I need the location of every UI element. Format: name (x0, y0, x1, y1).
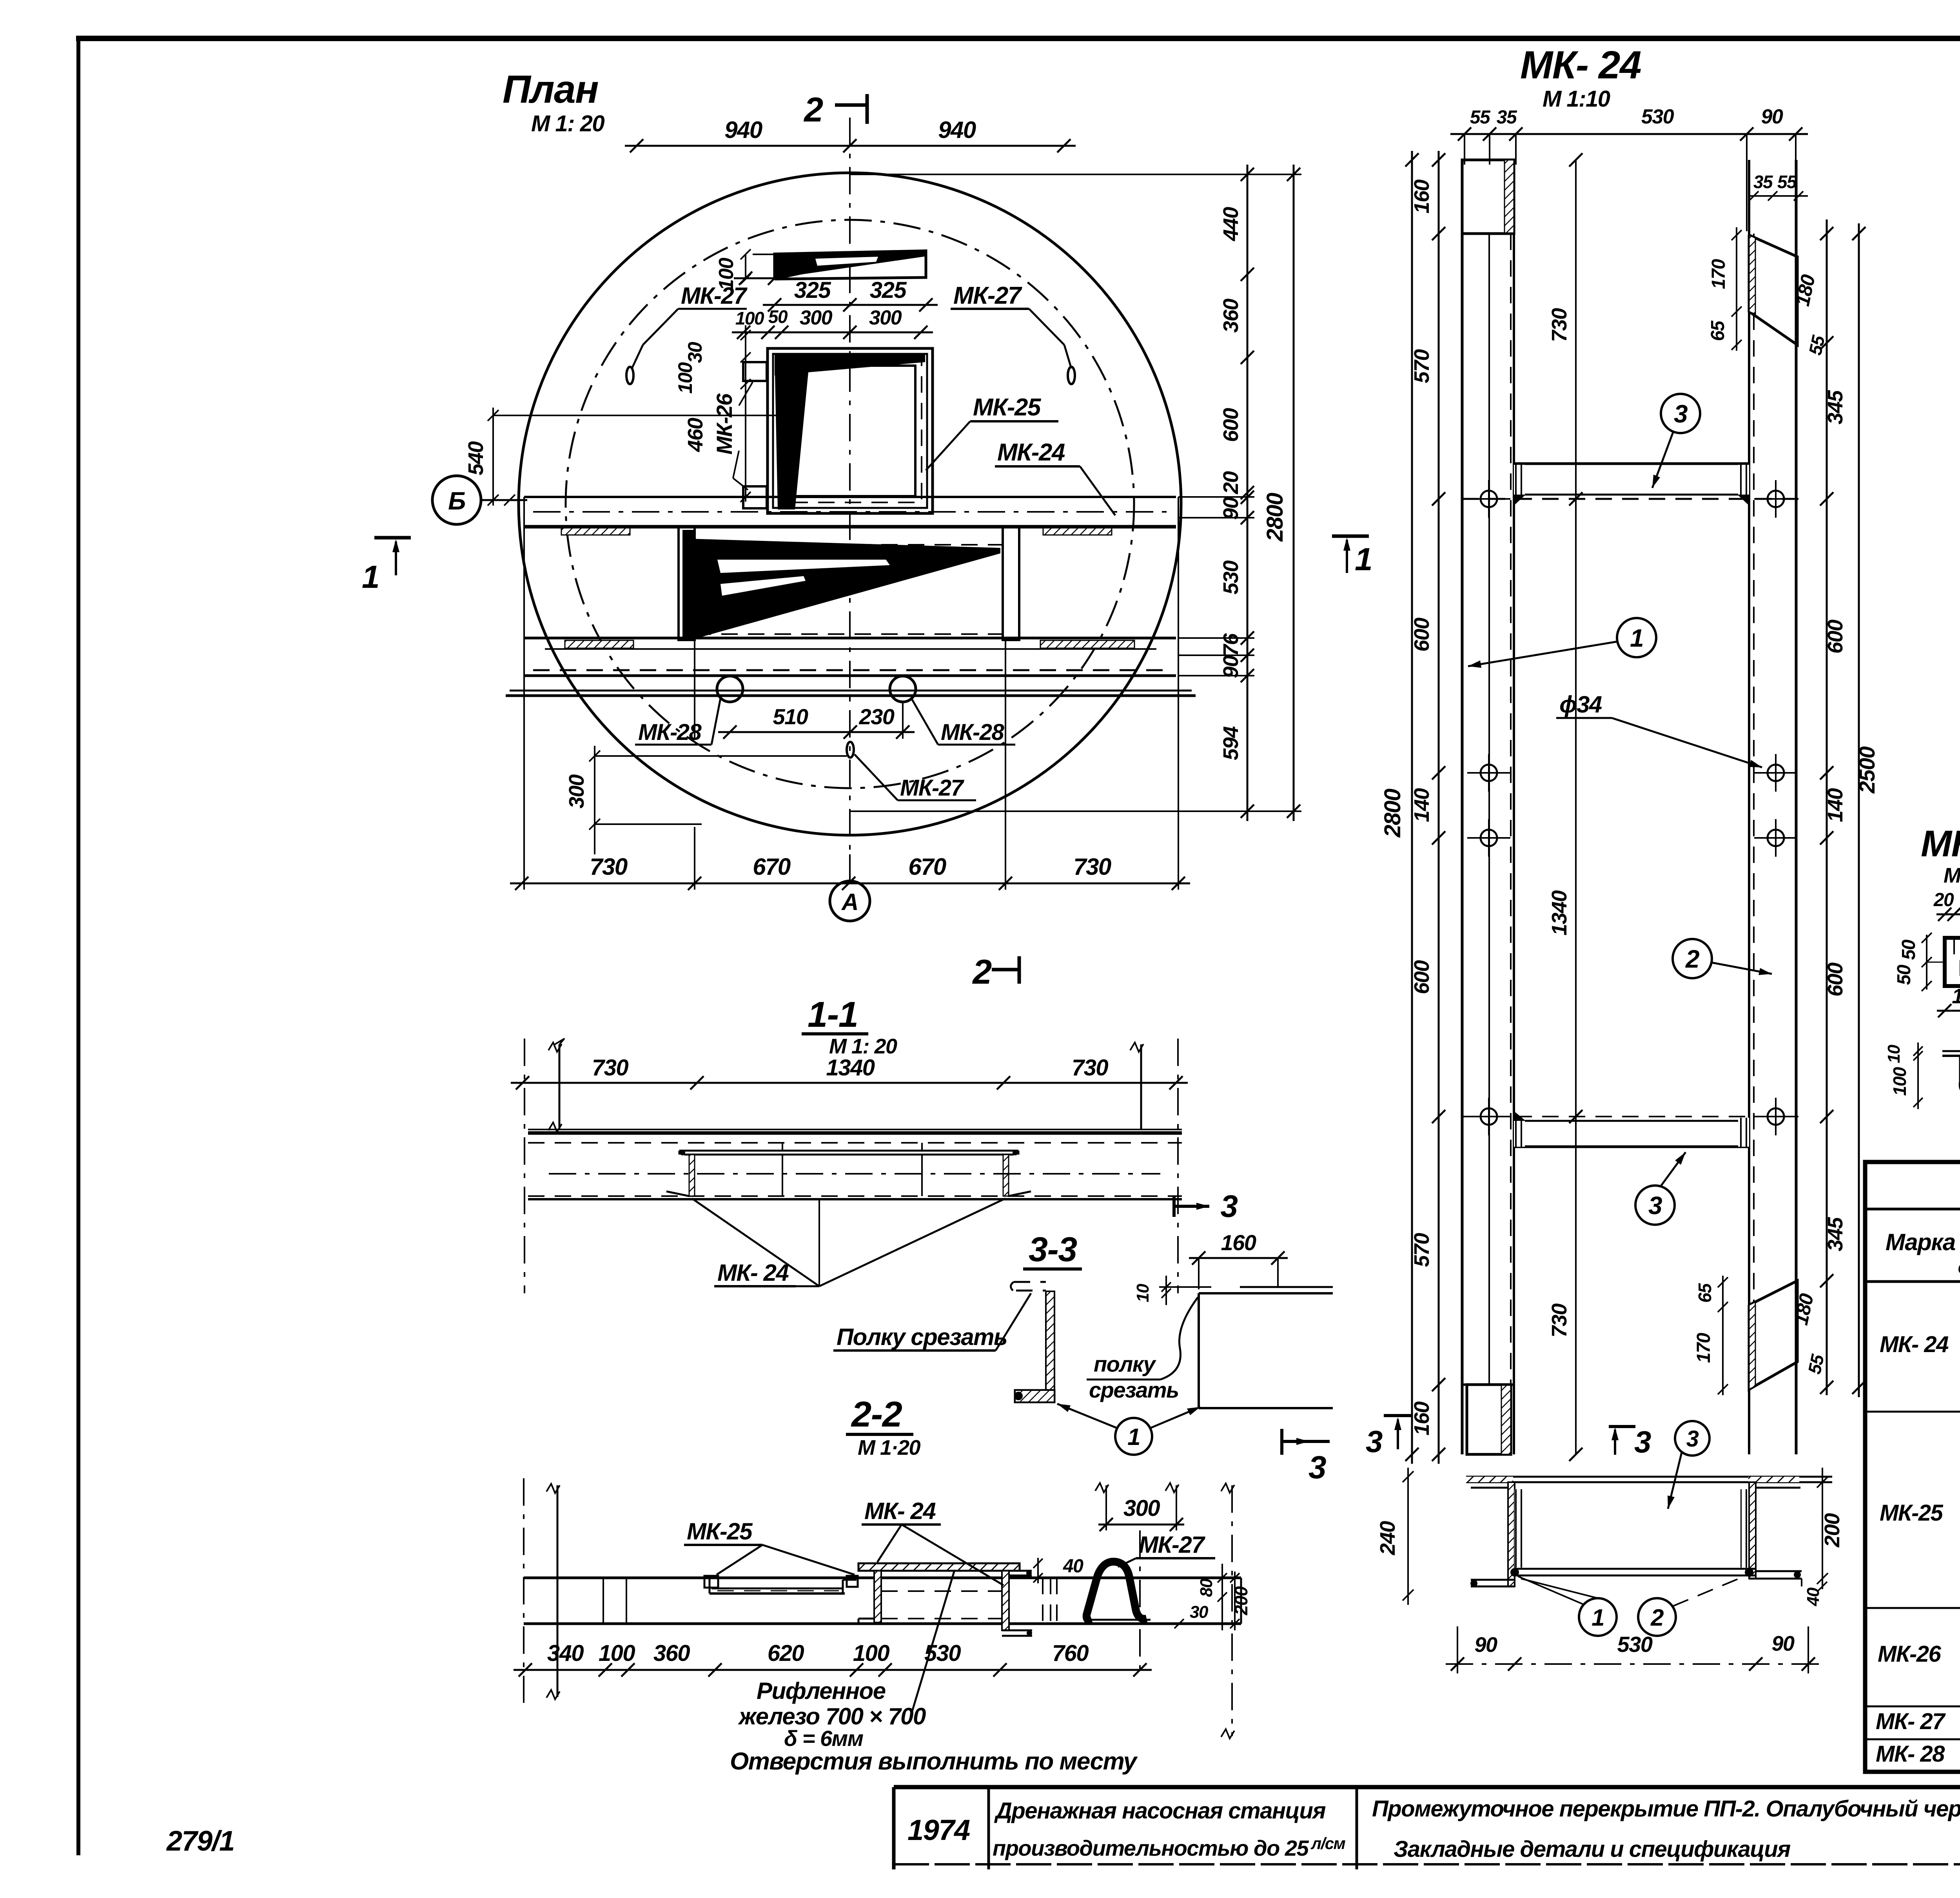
svg-text:М 1 : 10: М 1 : 10 (1944, 864, 1960, 887)
svg-text:90: 90 (1219, 497, 1243, 520)
svg-text:90: 90 (1771, 1632, 1795, 1655)
svg-text:65: 65 (1695, 1283, 1715, 1303)
svg-text:55: 55 (1470, 107, 1491, 128)
svg-text:530: 530 (1219, 560, 1243, 595)
svg-text:300: 300 (565, 774, 588, 809)
svg-text:300: 300 (869, 306, 902, 329)
svg-text:МК-27: МК-27 (953, 282, 1022, 309)
svg-text:530: 530 (1617, 1632, 1653, 1657)
svg-text:140: 140 (1410, 788, 1434, 822)
svg-text:2: 2 (803, 90, 823, 129)
svg-text:90: 90 (1219, 655, 1243, 678)
svg-text:МК-28: МК-28 (638, 720, 702, 745)
svg-text:2: 2 (1685, 945, 1699, 973)
svg-text:200: 200 (1820, 1513, 1844, 1548)
svg-text:760: 760 (1052, 1641, 1089, 1666)
svg-text:940: 940 (938, 117, 976, 143)
svg-text:140: 140 (1824, 788, 1847, 822)
svg-text:10: 10 (1884, 1044, 1904, 1063)
svg-text:Марка: Марка (1886, 1229, 1955, 1255)
svg-text:Отверстия выполнить по: Отверстия выполнить по месту (730, 1748, 1138, 1775)
svg-text:МК-28: МК-28 (941, 720, 1005, 745)
svg-text:600: 600 (1824, 963, 1847, 997)
svg-text:1974: 1974 (907, 1814, 970, 1846)
svg-text:730: 730 (1548, 308, 1571, 342)
svg-text:600: 600 (1410, 960, 1434, 994)
svg-text:2: 2 (1650, 1604, 1664, 1631)
svg-text:срезать: срезать (1089, 1378, 1179, 1402)
svg-text:340: 340 (547, 1641, 584, 1666)
svg-text:Рифленное: Рифленное (757, 1678, 886, 1704)
svg-text:570: 570 (1410, 349, 1434, 383)
svg-text:600: 600 (1824, 620, 1847, 654)
svg-text:325: 325 (794, 277, 831, 303)
svg-text:100: 100 (1952, 984, 1960, 1008)
svg-text:производительностью до 25: производительностью до 25 (993, 1836, 1309, 1860)
svg-text:940: 940 (724, 117, 762, 143)
svg-text:1-1: 1-1 (808, 995, 858, 1035)
svg-text:МК- 24: МК- 24 (1880, 1332, 1949, 1357)
svg-text:300: 300 (800, 306, 833, 329)
svg-text:МК-25: МК-25 (1880, 1500, 1944, 1526)
svg-text:170: 170 (1708, 259, 1729, 289)
svg-text:МК-26: МК-26 (712, 393, 737, 455)
svg-text:35: 35 (1753, 172, 1773, 192)
svg-text:30: 30 (684, 342, 706, 363)
svg-text:2-2: 2-2 (851, 1394, 902, 1434)
svg-text:10: 10 (1133, 1283, 1152, 1302)
svg-text:730: 730 (1548, 1303, 1571, 1338)
svg-text:76: 76 (1219, 633, 1243, 656)
svg-text:50: 50 (1894, 964, 1915, 985)
svg-text:100: 100 (853, 1641, 890, 1666)
svg-text:55: 55 (1777, 172, 1797, 192)
svg-text:МК-25: МК-25 (973, 394, 1042, 421)
svg-text:3: 3 (1674, 400, 1688, 428)
svg-text:М 1: 20: М 1: 20 (829, 1035, 897, 1058)
svg-text:360: 360 (1219, 299, 1243, 333)
svg-text:Дренажная насосная станция: Дренажная насосная станция (994, 1798, 1326, 1824)
svg-text:600: 600 (1410, 618, 1434, 652)
svg-text:540: 540 (464, 441, 488, 475)
svg-text:3: 3 (1634, 1425, 1651, 1459)
svg-text:300: 300 (1123, 1496, 1160, 1521)
svg-text:Полку срезать: Полку срезать (837, 1324, 1007, 1350)
svg-text:Б: Б (448, 487, 465, 515)
svg-text:730: 730 (590, 854, 628, 880)
svg-text:20: 20 (1219, 471, 1243, 495)
svg-text:2800: 2800 (1380, 789, 1405, 838)
svg-text:100: 100 (599, 1641, 635, 1666)
svg-text:МК-27: МК-27 (900, 775, 965, 801)
svg-text:МК- 24: МК- 24 (864, 1498, 936, 1524)
svg-text:200: 200 (1231, 1586, 1251, 1615)
svg-text:1340: 1340 (1548, 890, 1571, 935)
svg-text:Промежуточное перекрытие П: Промежуточное перекрытие ПП-2. Опалубочн… (1372, 1796, 1960, 1822)
svg-text:1340: 1340 (826, 1055, 875, 1080)
svg-text:40: 40 (1063, 1556, 1083, 1577)
svg-text:3: 3 (1308, 1450, 1326, 1485)
svg-text:30: 30 (1190, 1603, 1209, 1622)
svg-text:530: 530 (1641, 105, 1674, 128)
svg-text:1: 1 (1592, 1604, 1604, 1631)
svg-text:полку: полку (1094, 1352, 1156, 1376)
svg-text:М 1:10: М 1:10 (1543, 86, 1610, 112)
svg-text:510: 510 (773, 704, 808, 729)
svg-text:Закладные детали и: Закладные детали и спецификация (1394, 1836, 1791, 1862)
svg-text:90: 90 (1474, 1633, 1497, 1657)
svg-text:160: 160 (1410, 1401, 1434, 1436)
svg-text:90: 90 (1761, 105, 1783, 128)
svg-text:460: 460 (684, 418, 707, 452)
svg-text:План: План (503, 67, 598, 111)
svg-text:1: 1 (1355, 542, 1372, 577)
svg-text:δ = 6мм: δ = 6мм (784, 1726, 864, 1751)
svg-text:600: 600 (1219, 408, 1243, 442)
svg-text:50: 50 (768, 306, 788, 327)
svg-text:345: 345 (1824, 390, 1847, 424)
svg-text:3: 3 (1221, 1189, 1238, 1224)
svg-text:дет.: дет. (1958, 1256, 1960, 1278)
svg-text:670: 670 (908, 854, 946, 880)
svg-text:2500: 2500 (1855, 746, 1879, 794)
svg-text:279/1: 279/1 (166, 1825, 234, 1857)
svg-text:65: 65 (1708, 320, 1728, 341)
svg-text:325: 325 (870, 277, 907, 303)
svg-text:570: 570 (1410, 1233, 1434, 1267)
svg-text:360: 360 (653, 1641, 690, 1666)
svg-text:M 1: 20: M 1: 20 (531, 111, 604, 136)
svg-text:100: 100 (674, 362, 696, 394)
svg-text:МК- 28: МК- 28 (1876, 1741, 1945, 1767)
svg-text:железо 700 × 700: железо 700 × 700 (738, 1703, 926, 1729)
svg-text:20: 20 (1933, 890, 1954, 910)
svg-text:МК- 24: МК- 24 (1520, 43, 1641, 87)
svg-text:100: 100 (1889, 1067, 1910, 1096)
svg-text:620: 620 (768, 1641, 804, 1666)
svg-text:670: 670 (753, 854, 791, 880)
svg-text:МК-26: МК-26 (1878, 1641, 1942, 1667)
svg-text:3-3: 3-3 (1029, 1230, 1077, 1269)
svg-text:160: 160 (1221, 1230, 1256, 1255)
svg-text:1: 1 (1127, 1424, 1140, 1450)
svg-text:МК- 27: МК- 27 (1876, 1709, 1946, 1734)
svg-text:40: 40 (1804, 1587, 1823, 1606)
svg-text:1: 1 (1630, 624, 1643, 652)
svg-text:л/см: л/см (1310, 1834, 1346, 1853)
svg-text:240: 240 (1376, 1521, 1399, 1555)
svg-text:3: 3 (1686, 1426, 1699, 1452)
svg-text:М 1·20: М 1·20 (858, 1436, 921, 1459)
svg-text:100: 100 (735, 308, 764, 328)
svg-text:170: 170 (1693, 1332, 1714, 1363)
svg-text:80: 80 (1197, 1578, 1216, 1597)
svg-text:МК-27: МК-27 (1139, 1532, 1205, 1558)
svg-text:МК-24: МК-24 (997, 439, 1065, 466)
svg-text:730: 730 (1072, 1055, 1109, 1080)
svg-text:35: 35 (1497, 107, 1517, 128)
svg-text:440: 440 (1219, 207, 1243, 241)
svg-text:МК-27: МК-27 (681, 283, 748, 309)
svg-text:МК-25: МК-25 (687, 1518, 753, 1545)
svg-text:50: 50 (1898, 939, 1919, 960)
svg-text:2800: 2800 (1262, 493, 1288, 542)
svg-text:2: 2 (972, 952, 992, 991)
svg-text:МК- 24: МК- 24 (717, 1260, 789, 1286)
svg-text:730: 730 (592, 1055, 629, 1080)
svg-text:345: 345 (1824, 1217, 1847, 1251)
svg-text:594: 594 (1219, 726, 1243, 760)
svg-text:А: А (841, 889, 858, 915)
svg-text:ϕ34: ϕ34 (1559, 691, 1602, 718)
svg-text:160: 160 (1410, 179, 1434, 214)
svg-text:МК-26: МК-26 (1921, 823, 1960, 865)
svg-text:1: 1 (362, 559, 379, 595)
svg-text:3: 3 (1648, 1191, 1662, 1220)
svg-text:230: 230 (859, 704, 895, 729)
svg-text:730: 730 (1073, 854, 1111, 880)
svg-text:3: 3 (1366, 1424, 1383, 1459)
